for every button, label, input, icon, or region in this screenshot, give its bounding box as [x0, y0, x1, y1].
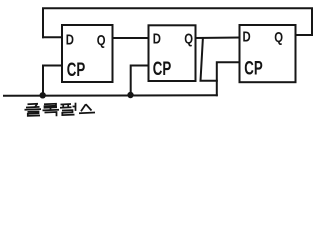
svg-text:D: D	[153, 30, 161, 47]
junction dot CP1 on clock line	[40, 92, 46, 98]
svg-text:D: D	[243, 28, 251, 45]
wire CP1 input	[43, 66, 62, 96]
flip-flop FF1 box	[62, 25, 113, 82]
wire D1 input	[43, 36, 62, 38]
wire feedback top	[43, 8, 312, 37]
junction dot CP2 on clock line	[127, 92, 133, 98]
svg-text:Q: Q	[274, 29, 283, 46]
wire Q2 branch down	[201, 38, 217, 81]
glyph 펄	[60, 103, 76, 115]
flip-flop FF2 box	[149, 25, 196, 81]
glyph 록	[43, 104, 60, 116]
clock label 클록펄스 drawn as strokes	[25, 103, 96, 117]
svg-text:D: D	[66, 31, 74, 48]
flip-flop FF3 box	[240, 25, 296, 82]
glyph 클	[25, 104, 42, 116]
wire CP2 input	[131, 66, 149, 96]
svg-text:Q: Q	[97, 32, 106, 49]
svg-text:CP: CP	[153, 59, 172, 80]
svg-text:Q: Q	[184, 30, 193, 47]
glyph 스	[79, 104, 95, 113]
wire clock line	[4, 94, 217, 97]
wire CP3 input	[217, 62, 240, 95]
svg-text:CP: CP	[67, 60, 86, 81]
wire Q2 to D3	[196, 37, 240, 40]
svg-text:CP: CP	[244, 58, 263, 79]
wire Q1 to D2	[113, 37, 149, 39]
